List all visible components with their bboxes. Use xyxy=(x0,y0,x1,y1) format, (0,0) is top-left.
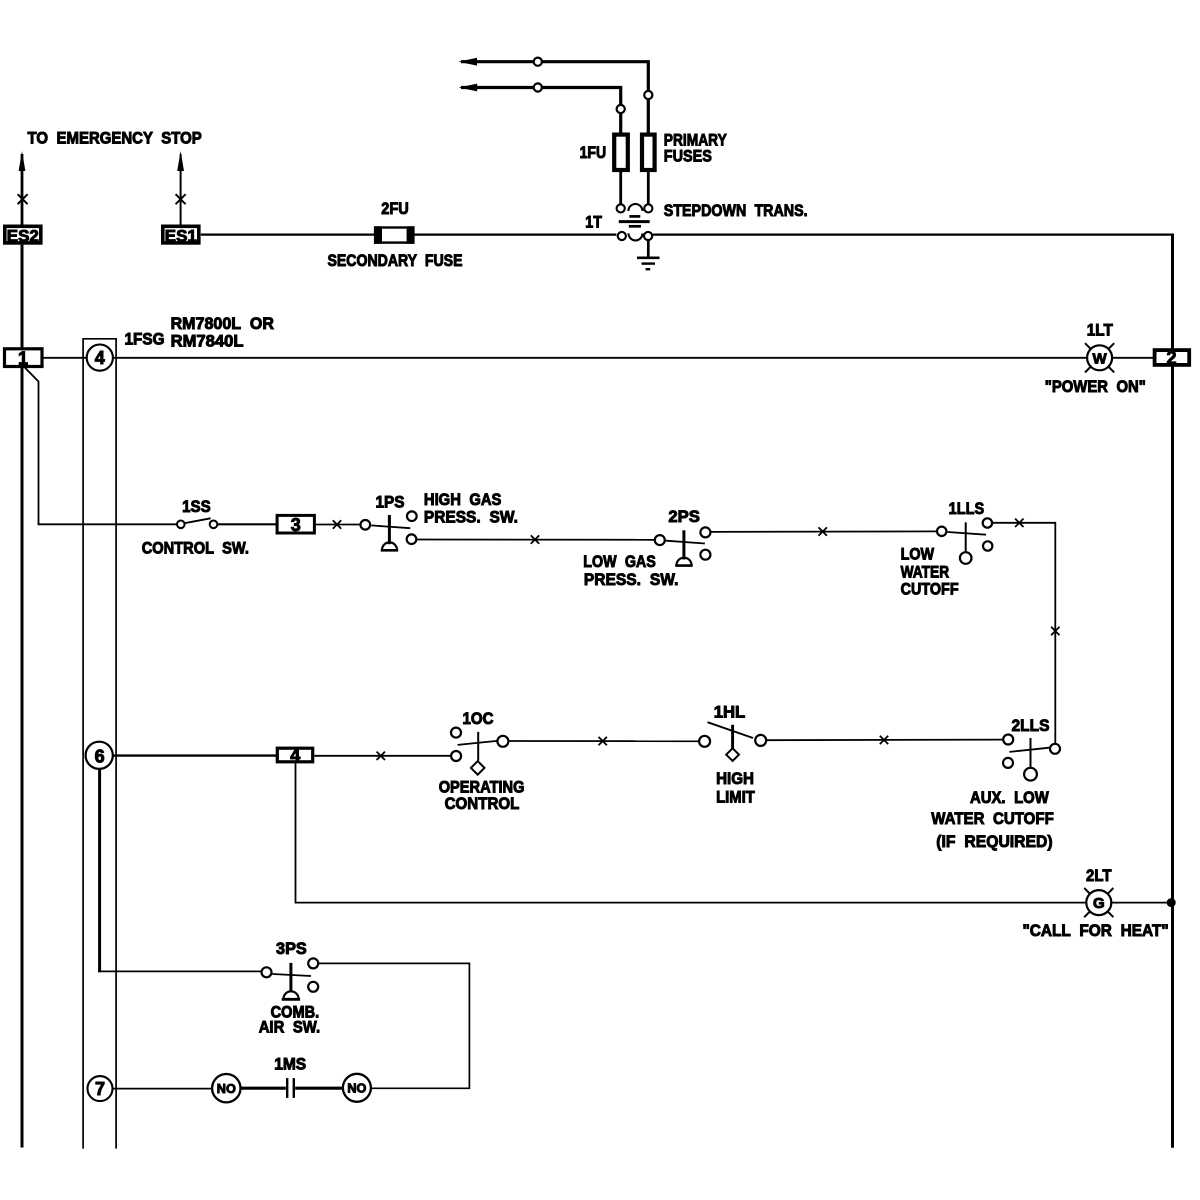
wire secondary bus ES1 to 2FU xyxy=(201,234,375,236)
terminal circle 4 xyxy=(87,345,113,371)
terminal circle 7 xyxy=(88,1076,113,1101)
wire ES1 arrow stem xyxy=(180,154,182,225)
switch 1SS control switch xyxy=(177,518,217,528)
X mark on ES1 stem xyxy=(176,194,186,204)
wire 1MS to NO coil (thick) xyxy=(295,1087,343,1090)
wire 1FU to transformer primary xyxy=(619,172,622,204)
svg-text:1LLS: 1LLS xyxy=(949,499,985,518)
terminal circle 6 xyxy=(86,742,113,769)
left rail lower (box 1 to bottom) xyxy=(21,367,24,1147)
arrowhead ES1 xyxy=(177,151,184,171)
X mark xyxy=(599,737,607,745)
wire 1LLS to 2LLS (corner down) xyxy=(992,523,1055,744)
svg-text:ES2: ES2 xyxy=(7,227,39,246)
float switch 1LLS low water cutoff xyxy=(937,518,992,564)
junction dot on right rail xyxy=(1167,898,1176,907)
terminal circle on L1 xyxy=(534,58,542,66)
svg-text:AIR SW.: AIR SW. xyxy=(259,1017,320,1036)
svg-text:1HL: 1HL xyxy=(714,702,746,721)
svg-text:W: W xyxy=(1093,350,1108,367)
svg-text:1T: 1T xyxy=(585,212,602,231)
wire lamp 1LT to box 2 xyxy=(1112,357,1154,359)
lamp 1LT "POWER ON" xyxy=(1085,343,1114,372)
terminal box 1 xyxy=(5,349,43,367)
transformer 1T xyxy=(617,204,653,240)
svg-text:1PS: 1PS xyxy=(376,492,405,511)
coil NO (left) xyxy=(212,1074,240,1102)
wire 1PS to 2PS xyxy=(416,539,655,541)
svg-text:G: G xyxy=(1093,895,1105,912)
X mark xyxy=(333,520,341,528)
X mark xyxy=(531,535,539,543)
svg-text:6: 6 xyxy=(95,746,105,766)
svg-text:HIGH GAS: HIGH GAS xyxy=(424,490,502,509)
svg-text:2PS: 2PS xyxy=(668,507,700,526)
X mark xyxy=(880,736,888,744)
wire rung 1: terminal 4 to lamp 1LT xyxy=(113,357,1087,359)
ground xyxy=(637,240,660,270)
X mark xyxy=(819,527,827,535)
svg-text:PRESS. SW.: PRESS. SW. xyxy=(584,570,679,589)
svg-text:AUX. LOW: AUX. LOW xyxy=(970,788,1050,807)
svg-text:TO EMERGENCY STOP: TO EMERGENCY STOP xyxy=(28,129,202,148)
svg-text:2FU: 2FU xyxy=(381,199,409,218)
svg-text:7: 7 xyxy=(95,1079,105,1099)
svg-text:SECONDARY FUSE: SECONDARY FUSE xyxy=(328,251,463,270)
wire secondary bus 2FU to transformer xyxy=(414,234,616,236)
svg-text:1FSG: 1FSG xyxy=(125,330,165,349)
float switch 2LLS aux low water cutoff xyxy=(1003,735,1060,781)
wire lamp 2LT to right rail xyxy=(1111,902,1172,904)
wire NO to 1MS contact (thick) xyxy=(241,1087,286,1090)
fuse right primary fuse xyxy=(642,135,655,170)
wire terminal 7 to NO coil xyxy=(113,1088,213,1090)
terminal box ES1 xyxy=(163,226,199,243)
svg-text:NO: NO xyxy=(217,1081,236,1096)
wire L2 feed line xyxy=(461,88,621,135)
svg-text:1MS: 1MS xyxy=(274,1054,306,1073)
terminal circle on left drop xyxy=(617,105,625,113)
wire secondary bus transformer to right rail xyxy=(653,234,1174,236)
X mark xyxy=(377,752,385,760)
svg-text:1FU: 1FU xyxy=(580,143,607,162)
left rail upper (ES2 to box 1) xyxy=(21,245,24,348)
terminal circle on L2 xyxy=(534,83,542,91)
wire right fuse to transformer primary xyxy=(647,172,650,204)
terminal box 4 xyxy=(277,748,312,762)
svg-text:STEPDOWN TRANS.: STEPDOWN TRANS. xyxy=(664,201,808,220)
pressure switch 1PS high gas xyxy=(361,511,417,550)
svg-text:2LT: 2LT xyxy=(1086,866,1112,885)
svg-text:RM7800L OR: RM7800L OR xyxy=(171,314,274,333)
wire L1 feed line xyxy=(461,62,648,134)
coil NO (right) xyxy=(343,1074,371,1102)
X mark on vertical xyxy=(1051,627,1059,635)
svg-text:3: 3 xyxy=(291,515,301,535)
contact 1MS xyxy=(287,1078,294,1098)
terminal box ES2 xyxy=(5,226,41,243)
wire 1SS to box 3 xyxy=(217,523,276,525)
wire box 4 to 1OC xyxy=(314,755,451,757)
svg-text:(IF REQUIRED): (IF REQUIRED) xyxy=(936,832,1052,851)
svg-text:WATER CUTOFF: WATER CUTOFF xyxy=(931,809,1054,828)
svg-text:2LLS: 2LLS xyxy=(1012,716,1050,735)
terminal box 2 xyxy=(1155,350,1190,365)
svg-text:RM7840L: RM7840L xyxy=(171,332,244,351)
svg-text:"CALL FOR HEAT": "CALL FOR HEAT" xyxy=(1022,921,1168,940)
right rail xyxy=(1171,234,1174,1148)
svg-text:FUSES: FUSES xyxy=(664,147,712,166)
wire ES2 arrow stem xyxy=(21,154,24,225)
svg-text:2: 2 xyxy=(1166,348,1176,368)
arrowhead L1 xyxy=(458,58,477,66)
lamp 2LT "CALL FOR HEAT" xyxy=(1084,888,1113,917)
arrowhead ES2 xyxy=(19,151,26,171)
terminal circle on right drop xyxy=(644,91,652,99)
fuse 2FU secondary fuse xyxy=(374,226,415,244)
svg-text:CONTROL SW.: CONTROL SW. xyxy=(142,538,249,557)
wire terminal 6 down to 3PS xyxy=(98,769,101,972)
svg-text:1: 1 xyxy=(18,348,28,368)
wire 3PS out (corner down to NO coil) xyxy=(318,963,469,1088)
svg-text:NO: NO xyxy=(347,1081,366,1096)
svg-text:1SS: 1SS xyxy=(182,497,211,516)
svg-text:"POWER ON": "POWER ON" xyxy=(1045,377,1146,396)
svg-text:CUTOFF: CUTOFF xyxy=(901,579,959,598)
svg-text:HIGH: HIGH xyxy=(716,769,754,788)
wire box 4 down to 2LT rung xyxy=(296,763,1087,902)
operating control 1OC xyxy=(451,728,508,775)
svg-text:4: 4 xyxy=(290,746,300,766)
svg-text:CONTROL: CONTROL xyxy=(445,794,520,813)
wire 2PS to 1LLS xyxy=(711,530,937,533)
svg-text:ES1: ES1 xyxy=(165,227,197,246)
svg-text:4: 4 xyxy=(95,348,105,368)
svg-text:PRESS. SW.: PRESS. SW. xyxy=(424,508,518,527)
X mark on ES2 stem xyxy=(18,194,28,204)
pressure switch 2PS low gas xyxy=(655,527,711,565)
svg-text:1OC: 1OC xyxy=(463,709,494,728)
fuse 1FU (left primary fuse) xyxy=(614,135,628,170)
svg-text:LOW GAS: LOW GAS xyxy=(583,552,656,571)
terminal box 3 xyxy=(277,515,314,533)
pressure switch 3PS comb. air sw. xyxy=(262,958,319,999)
svg-text:3PS: 3PS xyxy=(276,939,307,958)
svg-text:LIMIT: LIMIT xyxy=(716,788,755,807)
arrowhead L2 xyxy=(459,84,478,92)
wire 1OC to 1HL xyxy=(509,740,699,742)
relay module 1FSG box xyxy=(83,339,116,1149)
wire box 1 to rung 3 (bent) xyxy=(25,368,177,525)
svg-text:1LT: 1LT xyxy=(1087,320,1114,339)
wire terminal 6 to box 4 xyxy=(113,754,277,756)
wire box 1 to terminal 4 xyxy=(42,357,87,359)
wire to 3PS left contact xyxy=(98,970,262,972)
wire 1HL to 2LLS xyxy=(766,739,1003,742)
wire box 3 to 1PS xyxy=(316,524,361,526)
X mark xyxy=(1015,519,1023,527)
svg-text:LOW: LOW xyxy=(901,544,935,563)
high limit switch 1HL xyxy=(699,722,766,761)
